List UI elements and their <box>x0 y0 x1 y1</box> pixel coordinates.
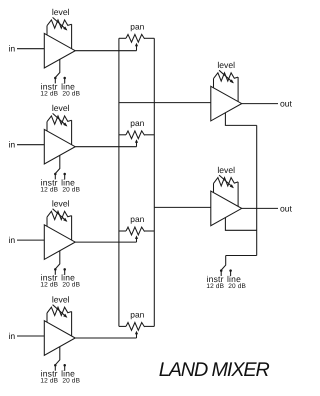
svg-text:out: out <box>280 99 293 109</box>
switch contact instr (channel 1) <box>54 77 57 84</box>
potentiometer pan (channel 2) <box>119 131 154 147</box>
svg-text:LAND MIXER: LAND MIXER <box>159 359 270 381</box>
switch contact line (channel 3) <box>63 268 66 275</box>
wire input channel 4 <box>17 335 44 337</box>
wire input channel 2 <box>17 144 44 146</box>
switch contact line (channel 4) <box>63 364 66 371</box>
svg-text:level: level <box>52 103 70 113</box>
switch gain select (channel 3) <box>55 251 60 269</box>
potentiometer level (output amp U5) <box>214 70 239 101</box>
wire gain bus to output switch <box>226 255 257 257</box>
svg-text:12 dB: 12 dB <box>40 186 58 193</box>
switch contact line (channel 2) <box>63 173 66 180</box>
switch contact instr (channel 4) <box>54 364 57 371</box>
op-amp channel 3 amp U3 <box>44 225 75 260</box>
svg-text:pan: pan <box>130 214 144 224</box>
wire channel 1 output to pan wiper <box>75 50 136 52</box>
wire U5 gain pin down-right <box>225 113 256 126</box>
switch gain select (channel 2) <box>55 155 60 174</box>
potentiometer level (channel 4 amp U4) <box>47 305 72 336</box>
potentiometer level (channel 1 amp U1) <box>47 17 72 48</box>
svg-text:pan: pan <box>130 21 144 31</box>
svg-text:20 dB: 20 dB <box>62 282 80 289</box>
op-amp output amp U6 <box>211 191 242 226</box>
wire input channel 1 <box>17 48 44 50</box>
wire gain bus vertical <box>256 125 258 255</box>
switch contact instr (output) <box>220 269 223 276</box>
svg-text:level: level <box>217 165 235 175</box>
potentiometer pan (channel 4) <box>119 323 154 339</box>
op-amp channel 4 amp U4 <box>44 321 75 356</box>
switch contact instr (channel 3) <box>54 268 57 275</box>
svg-text:out: out <box>280 203 293 213</box>
svg-text:level: level <box>52 7 70 17</box>
svg-text:level: level <box>52 294 70 304</box>
svg-text:in: in <box>8 331 15 341</box>
potentiometer pan (channel 1) <box>119 34 154 50</box>
potentiometer pan (channel 3) <box>119 227 154 242</box>
svg-text:in: in <box>8 44 15 54</box>
svg-text:20 dB: 20 dB <box>62 186 80 193</box>
svg-text:12 dB: 12 dB <box>40 378 58 385</box>
wire U6 gain pin down-right <box>225 218 256 231</box>
wire output amp U6 to out <box>242 207 278 209</box>
switch contact line (channel 1) <box>63 77 66 84</box>
svg-text:pan: pan <box>130 118 144 128</box>
svg-text:pan: pan <box>130 310 144 320</box>
switch gain select (output) <box>221 256 226 271</box>
svg-text:in: in <box>8 140 15 150</box>
potentiometer level (channel 3 amp U3) <box>47 209 72 240</box>
switch gain select (channel 4) <box>55 347 60 366</box>
wire channel 3 output to pan wiper <box>75 241 136 243</box>
op-amp channel 1 amp U1 <box>44 33 75 68</box>
left mix bus (net L) <box>118 38 120 326</box>
wire right bus to output amp U6 input <box>154 206 211 208</box>
wire channel 2 output to pan wiper <box>75 146 136 148</box>
potentiometer level (output amp U6) <box>214 175 239 206</box>
op-amp channel 2 amp U2 <box>44 129 75 164</box>
right mix bus (net R) <box>153 38 155 326</box>
op-amp output amp U5 <box>211 86 242 121</box>
svg-text:in: in <box>8 235 15 245</box>
svg-text:level: level <box>52 199 70 209</box>
wire input channel 3 <box>17 239 44 241</box>
wire output amp U5 to out <box>242 103 278 105</box>
svg-text:12 dB: 12 dB <box>40 282 58 289</box>
svg-text:12 dB: 12 dB <box>206 283 224 290</box>
svg-text:20 dB: 20 dB <box>62 90 80 97</box>
svg-text:20 dB: 20 dB <box>62 378 80 385</box>
switch contact line (output) <box>229 269 232 276</box>
switch gain select (channel 1) <box>55 59 60 78</box>
wire channel 4 output to pan wiper <box>75 337 136 339</box>
wire left bus to output amp U5 input <box>119 102 211 104</box>
svg-text:20 dB: 20 dB <box>228 283 246 290</box>
potentiometer level (channel 2 amp U2) <box>47 113 72 144</box>
switch contact instr (channel 2) <box>54 173 57 180</box>
svg-text:level: level <box>217 60 235 70</box>
svg-text:12 dB: 12 dB <box>40 90 58 97</box>
